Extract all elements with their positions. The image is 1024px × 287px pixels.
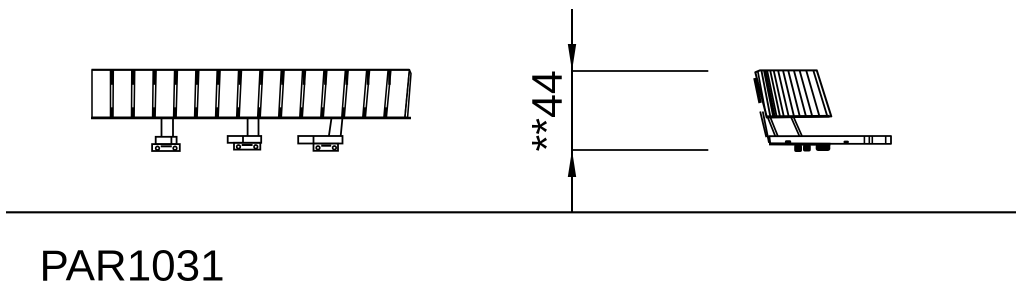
rail tick 3 <box>871 136 873 144</box>
side view bottom rail <box>769 136 891 144</box>
bench right end face <box>405 70 411 118</box>
slat gap 7 shadow <box>239 70 242 85</box>
front view bench seat slats <box>92 70 412 118</box>
side view front leg (left, double line) <box>760 112 769 143</box>
front leg 2 bolt left <box>237 145 241 149</box>
slat 4 <box>155 70 175 118</box>
slat gap 3 shadow <box>153 70 156 85</box>
slat gap 11 shadow <box>324 70 327 85</box>
side foot blob 1 <box>794 145 802 152</box>
slat 2 <box>113 70 132 118</box>
slat gap 10 shadow <box>303 70 306 85</box>
rail bump 1 <box>785 140 791 143</box>
slat gap 1 shadow <box>111 70 114 85</box>
svg-text:PAR1031: PAR1031 <box>40 241 225 287</box>
dimension extension line top <box>572 70 708 72</box>
front leg 1 leg <box>162 117 174 137</box>
slat 15 <box>386 70 409 118</box>
front leg 2 leg <box>248 117 259 136</box>
side view panel bottom thick edge <box>767 115 830 118</box>
side foot blob 2 <box>803 145 811 152</box>
slat gap 12 shadow <box>345 70 348 85</box>
rail bump 2 <box>844 141 849 144</box>
arrowhead up <box>568 150 576 177</box>
front leg 3 leg <box>329 117 343 136</box>
front leg 1 base plate <box>152 144 180 151</box>
slat gap 14 shadow <box>388 70 391 85</box>
side view panel left edge inner line <box>758 71 767 117</box>
slat gap 13 shadow <box>367 70 370 85</box>
side view leg pair B <box>791 118 802 137</box>
front leg 1 bolt left <box>156 146 160 150</box>
side view leg pair A <box>768 118 778 137</box>
side view seat panel outline <box>755 70 831 117</box>
front leg 1 plate shadow line <box>161 145 172 147</box>
slat 11 <box>302 70 324 118</box>
slat 8 <box>239 70 260 118</box>
slat gap 9 shadow <box>281 70 284 85</box>
slat 3 <box>134 70 153 118</box>
slat 1 <box>92 70 111 118</box>
bench top edge <box>92 69 410 71</box>
slat gap 5 shadow <box>196 70 199 85</box>
slat gap 8 shadow <box>260 70 263 85</box>
rail tick 2 <box>868 136 870 144</box>
ground line <box>6 211 1016 213</box>
slat 5 <box>176 70 196 118</box>
dimension extension line bottom <box>572 149 708 151</box>
front leg 3 bolt right <box>333 146 337 150</box>
front leg 2 base plate <box>234 143 260 150</box>
slat gap 4 shadow <box>175 70 178 85</box>
slat 14 <box>365 70 388 118</box>
front leg 1 mounting block <box>156 137 177 144</box>
slat 7 <box>218 70 238 118</box>
front leg 2 bolt right <box>254 145 258 149</box>
side view panel slats <box>761 70 827 117</box>
slat 9 <box>260 70 281 118</box>
side foot blob 3 <box>816 144 831 151</box>
rail tick 1 <box>863 136 865 144</box>
slat gap 6 shadow <box>217 70 220 85</box>
rail tick 4 <box>885 136 887 144</box>
side view panel left bracket dark segment <box>755 78 760 103</box>
rail bottom thick edge <box>769 142 831 145</box>
front leg 2 plate shadow line <box>242 144 253 146</box>
front leg 1 bolt right <box>173 146 177 150</box>
front leg 3 base plate <box>314 144 339 151</box>
front leg 2 mounting block <box>228 136 262 143</box>
dimension vertical line <box>571 9 573 212</box>
arrowhead down <box>568 44 576 71</box>
front leg 3 plate shadow line <box>321 145 331 147</box>
slat 12 <box>323 70 345 118</box>
bench bottom edge <box>91 117 411 120</box>
slat 13 <box>344 70 366 118</box>
slat gap 2 shadow <box>132 70 135 85</box>
front leg 3 mounting block <box>298 136 342 144</box>
slat 6 <box>197 70 217 118</box>
slat 10 <box>281 70 302 118</box>
front leg 3 bolt left <box>316 146 320 150</box>
svg-text:**44: **44 <box>523 70 571 151</box>
